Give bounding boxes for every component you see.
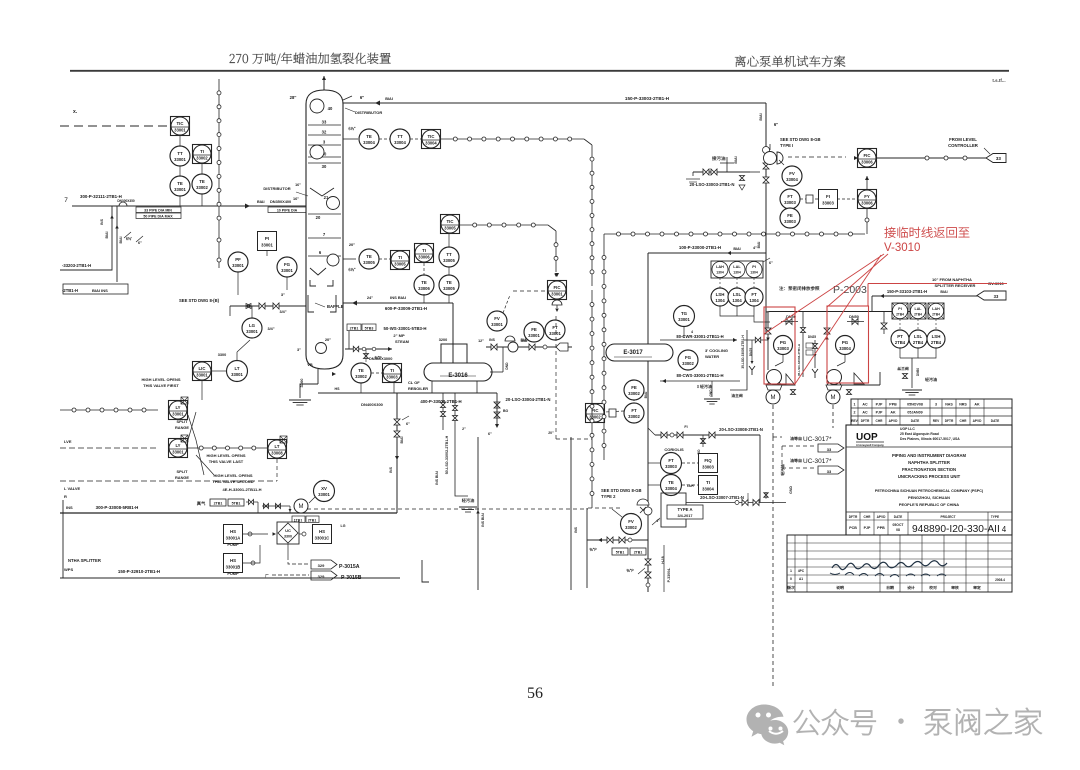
svg-text:3: 3 xyxy=(935,403,937,407)
svg-text:DN25: DN25 xyxy=(749,348,753,357)
svg-text:948890-I20-330-AII: 948890-I20-330-AII xyxy=(912,524,1000,535)
svg-text:INS: INS xyxy=(574,526,578,532)
svg-text:5TB1: 5TB1 xyxy=(616,551,625,555)
svg-text:REV: REV xyxy=(851,419,858,423)
svg-text:2TB4: 2TB4 xyxy=(895,340,906,345)
svg-text:BIAI: BIAI xyxy=(759,113,763,120)
svg-text:FT: FT xyxy=(631,408,637,413)
svg-text:6": 6" xyxy=(360,95,364,100)
svg-text:DND: DND xyxy=(505,362,509,370)
svg-text:33003: 33003 xyxy=(784,200,796,205)
svg-text:3200: 3200 xyxy=(439,338,447,342)
svg-text:20-LSO-33004-2TB1-N: 20-LSO-33004-2TB1-N xyxy=(506,397,551,402)
svg-text:4PC: 4PC xyxy=(798,569,805,573)
svg-text:600-P-33009-2TB1-H: 600-P-33009-2TB1-H xyxy=(385,306,427,311)
svg-text:TIC: TIC xyxy=(428,134,435,139)
svg-text:DISTRIBUTOR: DISTRIBUTOR xyxy=(355,110,382,115)
svg-text:P-33004-: P-33004- xyxy=(667,567,671,583)
svg-text:TYPE I: TYPE I xyxy=(780,143,793,148)
svg-text:BIAI: BIAI xyxy=(734,156,738,163)
svg-text:LSH: LSH xyxy=(716,292,725,297)
svg-text:LY: LY xyxy=(175,405,180,410)
svg-text:LT: LT xyxy=(234,366,239,371)
svg-text:33004: 33004 xyxy=(702,486,714,491)
svg-text:GND: GND xyxy=(709,389,713,397)
svg-text:28'': 28'' xyxy=(290,95,297,100)
svg-text:A Honeywell Company: A Honeywell Company xyxy=(856,443,884,447)
svg-text:SEE STD DWG 8-GB: SEE STD DWG 8-GB xyxy=(601,488,641,493)
svg-text:33006: 33006 xyxy=(861,200,873,205)
svg-text:FT: FT xyxy=(668,458,674,463)
svg-text:6": 6" xyxy=(406,422,410,426)
svg-text:AK: AK xyxy=(890,411,896,415)
svg-text:RANGE: RANGE xyxy=(175,475,189,480)
svg-text:PI: PI xyxy=(752,265,756,269)
svg-text:APVD: APVD xyxy=(877,515,887,519)
svg-text:4E-H-33001-2TB11-H: 4E-H-33001-2TB11-H xyxy=(223,487,262,492)
svg-text:33005: 33005 xyxy=(444,225,456,230)
svg-text:33002: 33002 xyxy=(628,414,640,419)
svg-text:33003: 33003 xyxy=(702,464,714,469)
svg-text:FE: FE xyxy=(531,327,537,332)
svg-text:05JAN09: 05JAN09 xyxy=(907,411,922,415)
svg-text:THIS VALVE LAST: THIS VALVE LAST xyxy=(209,459,244,464)
svg-text:TE: TE xyxy=(358,368,364,373)
svg-text:33001B: 33001B xyxy=(226,564,241,569)
svg-text:FI: FI xyxy=(684,425,687,429)
svg-text:6": 6" xyxy=(769,261,773,265)
svg-text:1304: 1304 xyxy=(749,298,759,303)
svg-text:BIAI INS: BIAI INS xyxy=(92,288,108,293)
svg-text:33008: 33008 xyxy=(271,450,283,455)
svg-text:33: 33 xyxy=(827,469,832,474)
svg-text:33 PIPE DIA MIN: 33 PIPE DIA MIN xyxy=(144,209,172,213)
svg-text:33005: 33005 xyxy=(443,258,455,263)
svg-text:INS: INS xyxy=(66,505,73,510)
svg-text:33002: 33002 xyxy=(682,361,694,366)
svg-text:DATE: DATE xyxy=(911,419,919,423)
svg-text:M: M xyxy=(831,395,836,401)
svg-text:0: 0 xyxy=(790,577,792,581)
svg-text:TI: TI xyxy=(200,149,204,154)
svg-text:2": 2" xyxy=(462,427,466,431)
svg-text:33004: 33004 xyxy=(425,140,437,145)
svg-text:HS: HS xyxy=(230,558,236,563)
svg-text:DFTR: DFTR xyxy=(945,419,954,423)
svg-text:BO: BO xyxy=(503,409,509,413)
svg-text:HS: HS xyxy=(230,529,236,534)
svg-text:AC: AC xyxy=(862,411,868,415)
svg-text:HIGH LEVEL OPENS: HIGH LEVEL OPENS xyxy=(206,453,245,458)
svg-text:PIPING AND INSTRUMENT DIAGRAM: PIPING AND INSTRUMENT DIAGRAM xyxy=(892,453,967,458)
svg-text:2TB4: 2TB4 xyxy=(931,340,942,345)
svg-text:TE: TE xyxy=(421,280,427,285)
svg-text:32: 32 xyxy=(322,130,327,135)
svg-text:3300: 3300 xyxy=(218,353,226,357)
svg-text:TI: TI xyxy=(706,480,710,485)
svg-text:SPLIT: SPLIT xyxy=(176,469,188,474)
svg-text:FG: FG xyxy=(685,355,692,360)
svg-text:BIAI: BIAI xyxy=(119,236,123,243)
svg-text:PI: PI xyxy=(265,236,269,241)
svg-text:V-3010: V-3010 xyxy=(884,242,920,254)
svg-text:33004: 33004 xyxy=(839,346,851,351)
svg-text:CHR: CHR xyxy=(864,515,872,519)
svg-text:33001: 33001 xyxy=(174,187,186,192)
svg-text:2TB4: 2TB4 xyxy=(913,340,924,345)
svg-text:PG: PG xyxy=(842,340,849,345)
svg-text:M: M xyxy=(771,395,776,401)
svg-text:12": 12" xyxy=(478,339,484,343)
svg-text:NRS: NRS xyxy=(959,403,967,407)
svg-text:PPB: PPB xyxy=(889,403,897,407)
svg-text:33002: 33002 xyxy=(625,525,637,530)
svg-text:300-P-32111-2TB1-H: 300-P-32111-2TB1-H xyxy=(80,194,122,199)
svg-text:1304: 1304 xyxy=(750,271,758,275)
svg-text:FT: FT xyxy=(787,194,793,199)
svg-text:6": 6" xyxy=(488,432,492,436)
svg-text:NAS: NAS xyxy=(945,403,953,407)
svg-text:20": 20" xyxy=(325,337,331,342)
svg-text:L VALVE: L VALVE xyxy=(64,486,81,491)
svg-text:1: 1 xyxy=(854,403,856,407)
svg-text:t.s.tf...: t.s.tf... xyxy=(992,78,1005,83)
svg-text:INS BIAI: INS BIAI xyxy=(435,471,439,485)
svg-text:PF: PF xyxy=(235,257,241,262)
svg-text:TE: TE xyxy=(199,179,205,184)
svg-text:33003: 33003 xyxy=(822,200,834,205)
svg-text:LSL: LSL xyxy=(733,292,742,297)
svg-text:3/4'': 3/4'' xyxy=(279,310,286,314)
svg-text:TYPE A: TYPE A xyxy=(678,507,693,512)
svg-text:FT: FT xyxy=(751,292,757,297)
svg-text:FIC: FIC xyxy=(864,153,871,158)
svg-text:UC: UC xyxy=(285,528,291,533)
svg-text:FE: FE xyxy=(787,213,793,218)
svg-text:BIAI: BIAI xyxy=(644,392,648,399)
svg-text:10 PIPE DIA: 10 PIPE DIA xyxy=(277,209,298,213)
svg-text:HS: HS xyxy=(335,387,341,391)
svg-text:THIS VALVE SECOND: THIS VALVE SECOND xyxy=(212,479,253,484)
svg-text:24": 24" xyxy=(367,295,373,300)
svg-text:LAH: LAH xyxy=(716,265,724,269)
svg-text:DN25: DN25 xyxy=(808,335,816,339)
svg-text:33001C: 33001C xyxy=(315,535,330,540)
svg-text:LAL: LAL xyxy=(733,265,741,269)
svg-text:SEE STD DWG 8-GB: SEE STD DWG 8-GB xyxy=(780,137,820,142)
svg-text:33001: 33001 xyxy=(231,372,243,377)
svg-text:33001: 33001 xyxy=(678,317,690,322)
svg-text:Des Plaines, Illinois 60017-50: Des Plaines, Illinois 60017-5017, USA xyxy=(900,437,960,441)
svg-text:TIC: TIC xyxy=(177,121,184,126)
svg-text:STEAM: STEAM xyxy=(395,339,410,344)
svg-text:UOP LLC: UOP LLC xyxy=(900,427,915,431)
svg-text:TE: TE xyxy=(177,181,183,186)
svg-text:1304: 1304 xyxy=(732,298,742,303)
svg-text:x.: x. xyxy=(73,109,78,115)
svg-text:6": 6" xyxy=(774,122,778,127)
svg-text:2TB4: 2TB4 xyxy=(896,313,904,317)
svg-text:PEOPLE'S REPUBLIC OF CHINA: PEOPLE'S REPUBLIC OF CHINA xyxy=(899,502,959,507)
svg-text:DFTR: DFTR xyxy=(861,419,870,423)
svg-text:05NOV08: 05NOV08 xyxy=(907,403,923,407)
svg-text:7: 7 xyxy=(64,197,68,204)
svg-text:33006: 33006 xyxy=(418,254,430,259)
svg-text:PG: PG xyxy=(780,340,787,345)
svg-text:150-P-33103-2TB1-H: 150-P-33103-2TB1-H xyxy=(887,289,927,294)
svg-text:20-LSO-33003-2TB1-N: 20-LSO-33003-2TB1-N xyxy=(690,182,735,187)
svg-text:FG: FG xyxy=(284,262,291,267)
svg-text:LG: LG xyxy=(249,323,256,328)
svg-text:INS: INS xyxy=(489,338,495,342)
svg-text:UOP: UOP xyxy=(856,432,878,443)
svg-text:PUMP: PUMP xyxy=(227,542,239,547)
svg-text:3'': 3'' xyxy=(297,348,301,352)
svg-text:CONTROLLER: CONTROLLER xyxy=(948,143,979,148)
svg-text:33001: 33001 xyxy=(172,449,184,454)
svg-text:LVE: LVE xyxy=(64,439,72,444)
svg-text:1304: 1304 xyxy=(716,271,724,275)
svg-text:33001: 33001 xyxy=(246,329,258,334)
svg-text:FV: FV xyxy=(789,171,795,176)
svg-text:VB: VB xyxy=(307,362,313,367)
svg-text:TAH: TAH xyxy=(686,484,694,488)
svg-text:PPB: PPB xyxy=(877,526,885,530)
svg-text:33: 33 xyxy=(994,294,999,299)
svg-text:33004: 33004 xyxy=(786,177,798,182)
svg-text:DN300X350: DN300X350 xyxy=(117,199,135,203)
svg-text:LG: LG xyxy=(341,524,346,528)
svg-text:P-2003: P-2003 xyxy=(833,284,867,296)
svg-text:DN350X400: DN350X400 xyxy=(270,199,291,204)
svg-text:25 East Algonquin Road: 25 East Algonquin Road xyxy=(900,432,939,436)
svg-text:33001: 33001 xyxy=(491,322,503,327)
svg-text:33001: 33001 xyxy=(196,372,208,377)
svg-text:2TB1: 2TB1 xyxy=(350,327,359,331)
svg-text:6": 6" xyxy=(138,241,142,245)
svg-text:20-LSO-33007-2TB1-N: 20-LSO-33007-2TB1-N xyxy=(700,495,744,500)
svg-text:UC-3017*: UC-3017* xyxy=(803,458,832,465)
svg-text:A1: A1 xyxy=(799,577,803,581)
svg-text:HIGH LEVEL OPENS: HIGH LEVEL OPENS xyxy=(141,377,180,382)
svg-text:4: 4 xyxy=(691,330,693,334)
svg-text:5TB3: 5TB3 xyxy=(365,327,374,331)
svg-text:2TB1: 2TB1 xyxy=(214,502,223,506)
svg-text:20": 20" xyxy=(349,242,355,247)
svg-text:M: M xyxy=(299,504,304,510)
svg-text:BIAI: BIAI xyxy=(257,200,265,204)
svg-text:NAPHTHA SPLITTER: NAPHTHA SPLITTER xyxy=(908,460,950,465)
svg-text:33003: 33003 xyxy=(777,346,789,351)
svg-text:4: 4 xyxy=(1002,525,1007,534)
svg-text:329: 329 xyxy=(318,563,325,568)
svg-text:2'' MP: 2'' MP xyxy=(393,333,405,338)
svg-text:HS: HS xyxy=(319,529,325,534)
svg-text:20: 20 xyxy=(316,215,321,220)
svg-text:35-LSO-33006-2TB1-H: 35-LSO-33006-2TB1-H xyxy=(797,343,801,376)
svg-text:-33203-2TB1-H: -33203-2TB1-H xyxy=(62,263,91,268)
svg-text:BIAI: BIAI xyxy=(400,436,404,443)
svg-text:33006: 33006 xyxy=(861,159,873,164)
svg-text:FIC: FIC xyxy=(554,285,561,290)
svg-text:CORIOLIS: CORIOLIS xyxy=(664,447,684,452)
svg-text:TE: TE xyxy=(366,134,372,139)
svg-text:NTHA SPLITTER: NTHA SPLITTER xyxy=(68,558,101,563)
svg-text:TYPE: TYPE xyxy=(991,515,999,519)
svg-text:2008.4: 2008.4 xyxy=(995,578,1005,582)
svg-text:TE: TE xyxy=(668,480,674,485)
svg-text:33003: 33003 xyxy=(665,464,677,469)
svg-text:33001A: 33001A xyxy=(226,535,241,540)
svg-text:16'': 16'' xyxy=(293,197,299,201)
svg-text:PENGZHOU, SICHUAN: PENGZHOU, SICHUAN xyxy=(908,495,950,500)
svg-text:1304: 1304 xyxy=(715,298,725,303)
svg-text:FIQ: FIQ xyxy=(704,458,712,463)
svg-text:UC-3017*: UC-3017* xyxy=(803,436,832,443)
svg-text:1304: 1304 xyxy=(733,271,741,275)
svg-text:33006: 33006 xyxy=(418,286,430,291)
svg-text:TIC: TIC xyxy=(447,219,454,224)
svg-text:33002: 33002 xyxy=(355,374,367,379)
svg-text:3'': 3'' xyxy=(281,292,285,297)
svg-text:30: 30 xyxy=(322,164,327,169)
svg-text:08: 08 xyxy=(896,528,900,532)
svg-text:WATER: WATER xyxy=(705,354,719,359)
svg-text:PROJECT: PROJECT xyxy=(940,515,955,519)
svg-text:HIGH LEVEL OPENS: HIGH LEVEL OPENS xyxy=(213,473,252,478)
svg-text:P-3015A: P-3015A xyxy=(339,564,360,570)
svg-text:40: 40 xyxy=(328,106,333,111)
svg-text:2TB1: 2TB1 xyxy=(634,551,643,555)
svg-text:DN450X3000: DN450X3000 xyxy=(369,356,392,361)
svg-text:TI: TI xyxy=(390,368,394,373)
svg-text:33005: 33005 xyxy=(394,261,406,266)
svg-text:LSL: LSL xyxy=(914,334,923,339)
svg-text:LAH: LAH xyxy=(932,307,940,311)
svg-text:-2TB1-H: -2TB1-H xyxy=(62,288,78,293)
svg-text:33002: 33002 xyxy=(196,155,208,160)
svg-text:INS: INS xyxy=(100,218,104,225)
svg-text:FE: FE xyxy=(631,385,637,390)
svg-text:REV: REV xyxy=(933,419,940,423)
svg-text:FT: FT xyxy=(552,325,558,330)
svg-text:2TB4: 2TB4 xyxy=(914,313,922,317)
svg-text:20": 20" xyxy=(548,431,554,435)
svg-text:TE: TE xyxy=(446,280,452,285)
svg-text:150-P-33003-2TB1-H: 150-P-33003-2TB1-H xyxy=(625,96,670,101)
svg-text:FROM LEVEL: FROM LEVEL xyxy=(949,137,977,142)
svg-text:33001: 33001 xyxy=(232,263,244,268)
svg-text:LT: LT xyxy=(275,444,280,449)
svg-text:33001: 33001 xyxy=(281,268,293,273)
svg-text:33: 33 xyxy=(322,120,327,125)
svg-text:FV: FV xyxy=(628,519,634,524)
svg-text:3' COOLING: 3' COOLING xyxy=(705,348,728,353)
svg-text:2TB1: 2TB1 xyxy=(308,519,317,523)
svg-text:BIAI: BIAI xyxy=(385,97,393,101)
svg-text:100-P-33000-2TB1-H: 100-P-33000-2TB1-H xyxy=(679,245,721,250)
svg-text:33004: 33004 xyxy=(665,486,677,491)
svg-text:CL OF: CL OF xyxy=(408,380,420,385)
svg-text:33001: 33001 xyxy=(549,331,561,336)
svg-text:33004: 33004 xyxy=(363,140,375,145)
svg-text:DATE: DATE xyxy=(991,419,999,423)
svg-text:50 PIPE DIA MAX: 50 PIPE DIA MAX xyxy=(143,215,173,219)
svg-text:150-P-32910-2TB1-H: 150-P-32910-2TB1-H xyxy=(118,569,160,574)
svg-text:16'': 16'' xyxy=(295,183,301,187)
svg-text:56: 56 xyxy=(527,685,543,702)
svg-text:LY: LY xyxy=(175,443,180,448)
svg-text:DN50: DN50 xyxy=(916,368,920,376)
svg-text:R: R xyxy=(64,494,67,499)
svg-text:DN400X300: DN400X300 xyxy=(361,402,384,407)
svg-text:BAFFLE: BAFFLE xyxy=(327,304,344,309)
svg-text:UNICRACKING PROCESS UNIT: UNICRACKING PROCESS UNIT xyxy=(898,474,961,479)
svg-text:33003: 33003 xyxy=(784,219,796,224)
svg-text:H-18: H-18 xyxy=(661,556,665,563)
svg-text:PJP: PJP xyxy=(876,403,883,407)
svg-text:35-LSO-33005-2TB1-H: 35-LSO-33005-2TB1-H xyxy=(741,335,745,369)
svg-text:BIAI: BIAI xyxy=(733,247,740,251)
svg-text:BIAI: BIAI xyxy=(521,339,528,343)
svg-text:33004: 33004 xyxy=(394,140,406,145)
svg-text:PI: PI xyxy=(898,307,901,311)
svg-text:33003: 33003 xyxy=(386,374,398,379)
svg-text:AC: AC xyxy=(862,403,868,407)
svg-text:PCB: PCB xyxy=(849,526,857,530)
svg-text:TT: TT xyxy=(177,151,183,156)
svg-text:33005: 33005 xyxy=(443,286,455,291)
svg-text:3300: 3300 xyxy=(284,535,292,539)
svg-text:BIAI: BIAI xyxy=(940,290,947,294)
svg-text:XV: XV xyxy=(321,486,327,491)
svg-text:WPS: WPS xyxy=(64,567,73,572)
svg-text:FY: FY xyxy=(864,194,870,199)
svg-text:2TB4: 2TB4 xyxy=(932,313,940,317)
svg-text:33001: 33001 xyxy=(551,291,563,296)
svg-text:33: 33 xyxy=(996,156,1002,161)
svg-text:LIC: LIC xyxy=(199,366,206,371)
svg-text:80-CWR-33001-2TB11-H: 80-CWR-33001-2TB11-H xyxy=(676,334,723,339)
svg-text:TT: TT xyxy=(397,134,403,139)
svg-text:300-P-33008-5RB1-H: 300-P-33008-5RB1-H xyxy=(96,505,139,510)
svg-text:CHR: CHR xyxy=(960,419,968,423)
svg-text:AK: AK xyxy=(974,403,980,407)
svg-text:SEE STD DWG 8-(B): SEE STD DWG 8-(B) xyxy=(179,298,220,303)
svg-text:PUMP: PUMP xyxy=(227,571,239,576)
svg-text:33002: 33002 xyxy=(628,391,640,396)
svg-text:TI: TI xyxy=(398,255,402,260)
svg-text:LSH: LSH xyxy=(932,334,941,339)
svg-text:INS BIAI: INS BIAI xyxy=(390,295,406,300)
svg-text:33001: 33001 xyxy=(174,157,186,162)
svg-text:GND: GND xyxy=(789,486,793,494)
svg-text:THIS VALVE FIRST: THIS VALVE FIRST xyxy=(143,383,179,388)
svg-text:3/4-2017: 3/4-2017 xyxy=(678,514,693,518)
svg-text:33001: 33001 xyxy=(261,242,273,247)
svg-text:20-LSO-33008-2TB1-N: 20-LSO-33008-2TB1-N xyxy=(719,427,763,432)
svg-text:FV: FV xyxy=(494,316,500,321)
svg-text:TYPE 2: TYPE 2 xyxy=(601,494,616,499)
svg-text:TT: TT xyxy=(446,252,452,257)
svg-text:3/4'': 3/4'' xyxy=(267,327,274,331)
svg-text:TI: TI xyxy=(422,248,426,253)
svg-text:80-CWS-33001-2TB11-H: 80-CWS-33001-2TB11-H xyxy=(676,373,723,378)
svg-text:33005: 33005 xyxy=(363,260,375,265)
svg-text:2: 2 xyxy=(854,411,856,415)
svg-text:33002: 33002 xyxy=(196,185,208,190)
svg-text:10" FROM NAPHTHA: 10" FROM NAPHTHA xyxy=(932,277,972,282)
